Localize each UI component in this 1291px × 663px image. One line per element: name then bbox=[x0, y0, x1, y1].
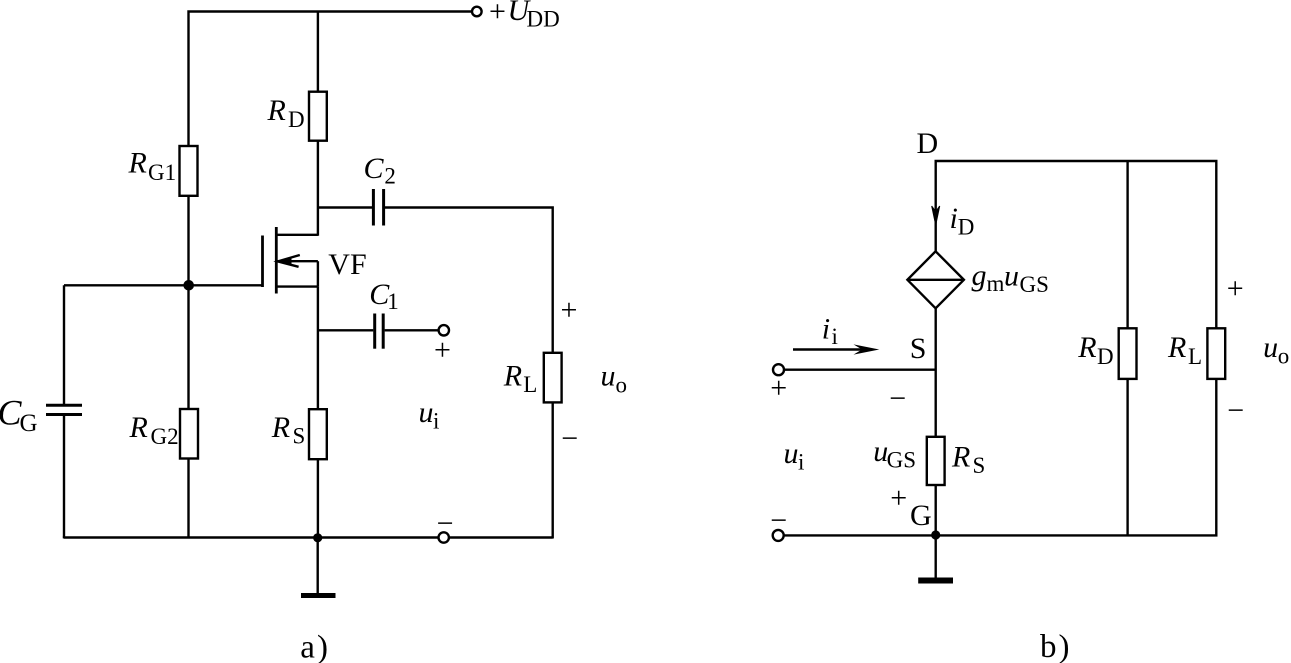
resistor RL bbox=[544, 353, 562, 403]
wire: RL bottom to ground rail bbox=[552, 402, 554, 538]
svg-text:C: C bbox=[364, 152, 385, 185]
transistor VF: source stub bbox=[276, 285, 318, 287]
svg-text:1: 1 bbox=[387, 289, 399, 314]
svg-text:−: − bbox=[1227, 394, 1244, 427]
ground symbol circuit b bbox=[918, 578, 953, 584]
resistor RG1 bbox=[180, 146, 198, 196]
terminal +UDD bbox=[472, 7, 482, 17]
wire: b input wire to S node bbox=[784, 369, 936, 371]
terminal: b input bottom bbox=[773, 530, 784, 541]
transistor VF: drain stub bbox=[276, 234, 318, 236]
wire: bottom ground rail left of terminal bbox=[64, 536, 438, 538]
svg-text:o: o bbox=[616, 373, 628, 398]
svg-text:DD: DD bbox=[527, 6, 560, 31]
svg-text:G: G bbox=[20, 410, 38, 437]
wire: RD branch circuit b bbox=[1126, 161, 1128, 328]
svg-text:+: + bbox=[489, 0, 506, 28]
svg-text:i: i bbox=[433, 409, 439, 434]
svg-text:o: o bbox=[1278, 344, 1290, 369]
terminal: input top terminal bbox=[439, 325, 449, 335]
wire: C2 branch right to RL corner bbox=[385, 208, 553, 353]
svg-text:GS: GS bbox=[887, 447, 916, 472]
capacitor C1 bbox=[373, 314, 376, 349]
transistor VF: bulk to source tie bbox=[317, 261, 319, 286]
svg-text:R: R bbox=[129, 411, 148, 444]
svg-text:u: u bbox=[1004, 260, 1019, 293]
resistor RG2 bbox=[180, 409, 198, 459]
terminal: b input top bbox=[773, 364, 784, 375]
capacitor C2 bbox=[372, 189, 375, 226]
wire: CG branch upper bbox=[63, 285, 65, 404]
svg-text:i: i bbox=[832, 324, 838, 349]
svg-text:D: D bbox=[288, 107, 305, 132]
node: G junction dot bbox=[931, 530, 940, 539]
svg-text:R: R bbox=[1077, 331, 1096, 364]
svg-text:b): b) bbox=[1040, 629, 1072, 663]
wire: bottom ground rail right of terminal bbox=[449, 536, 553, 538]
svg-text:−: − bbox=[437, 507, 454, 540]
wire: RS bottom to ground rail bbox=[317, 459, 319, 537]
arrow ii bbox=[793, 348, 866, 350]
transistor VF: channel bar bbox=[275, 227, 278, 294]
svg-text:R: R bbox=[267, 94, 286, 127]
svg-text:L: L bbox=[523, 372, 537, 397]
resistor RD bbox=[309, 92, 327, 141]
svg-text:S: S bbox=[293, 424, 306, 449]
dependent source gm-uGS diamond bbox=[907, 251, 964, 308]
svg-text:R: R bbox=[128, 147, 147, 180]
wire: RS bottom to G node bbox=[935, 485, 937, 535]
svg-text:D: D bbox=[1097, 344, 1114, 369]
wire: b ground stem bbox=[935, 535, 937, 578]
wire: RG2 bottom to ground rail bbox=[187, 459, 189, 539]
arrow iD on drain wire bbox=[932, 206, 940, 225]
svg-text:u: u bbox=[1263, 331, 1278, 364]
svg-text:−: − bbox=[561, 422, 578, 455]
svg-text:i: i bbox=[798, 450, 804, 475]
wire: C1 branch left bbox=[318, 329, 373, 331]
wire: C1 branch right bbox=[385, 329, 439, 331]
svg-text:+: + bbox=[770, 372, 787, 405]
node: gate junction dot bbox=[183, 280, 194, 291]
wire: gate wire from CG branch to MOSFET gate bbox=[64, 284, 263, 286]
svg-text:−: − bbox=[770, 504, 787, 537]
svg-text:R: R bbox=[951, 441, 970, 474]
svg-text:D: D bbox=[917, 127, 939, 160]
transistor VF: bulk stub with arrow bbox=[278, 260, 318, 262]
wire: ground stem bbox=[317, 538, 319, 594]
capacitor CG bbox=[46, 404, 82, 407]
svg-text:m: m bbox=[987, 271, 1005, 296]
resistor RL circuit b bbox=[1207, 328, 1225, 379]
transistor VF: gate bar bbox=[261, 236, 264, 288]
wire: b bottom rail bbox=[784, 379, 1216, 535]
svg-text:R: R bbox=[271, 411, 290, 444]
terminal: bottom input terminal bbox=[439, 532, 449, 542]
svg-text:L: L bbox=[1188, 344, 1202, 369]
svg-text:+: + bbox=[561, 294, 578, 327]
wire: source down to RS bbox=[317, 287, 319, 410]
svg-text:i: i bbox=[822, 313, 830, 346]
svg-text:G2: G2 bbox=[151, 424, 179, 449]
svg-text:S: S bbox=[973, 453, 986, 478]
svg-text:GS: GS bbox=[1020, 272, 1049, 297]
svg-text:R: R bbox=[1167, 331, 1186, 364]
svg-text:u: u bbox=[784, 437, 799, 470]
wire: b top rail bbox=[936, 161, 1217, 328]
svg-text:G: G bbox=[910, 499, 932, 532]
wire: RD bottom to drain bbox=[317, 141, 319, 236]
wire: RD bottom circuit b bbox=[1126, 379, 1128, 536]
svg-text:G1: G1 bbox=[148, 160, 176, 185]
wire: C2 branch left bbox=[318, 206, 372, 208]
svg-text:u: u bbox=[419, 396, 434, 429]
wire: RG1 bottom to gate node and on to RG2 bbox=[187, 196, 189, 409]
ground symbol circuit a bbox=[301, 593, 336, 598]
wire: diamond bottom to RS bbox=[935, 308, 937, 437]
svg-text:2: 2 bbox=[384, 164, 396, 189]
svg-text:D: D bbox=[958, 215, 975, 240]
resistor RS bbox=[309, 409, 327, 459]
svg-text:R: R bbox=[503, 360, 522, 393]
wire: CG branch lower bbox=[63, 416, 65, 538]
svg-text:g: g bbox=[972, 259, 987, 292]
svg-text:a): a) bbox=[300, 630, 330, 663]
resistor RD circuit b bbox=[1119, 328, 1137, 379]
svg-text:+: + bbox=[890, 482, 907, 515]
svg-text:+: + bbox=[434, 334, 451, 367]
node: source/ground junction dot bbox=[313, 533, 322, 542]
wire: top supply rail with left corner down to RG1 bbox=[189, 12, 472, 147]
svg-text:VF: VF bbox=[328, 248, 366, 281]
svg-text:−: − bbox=[889, 382, 906, 415]
svg-text:i: i bbox=[950, 202, 958, 235]
resistor RS circuit b bbox=[927, 437, 945, 485]
svg-text:u: u bbox=[601, 360, 616, 393]
svg-text:S: S bbox=[910, 332, 927, 365]
svg-text:+: + bbox=[1227, 272, 1244, 305]
wire: bottom corner left bbox=[63, 537, 65, 539]
wire: RD branch top bbox=[317, 12, 319, 92]
